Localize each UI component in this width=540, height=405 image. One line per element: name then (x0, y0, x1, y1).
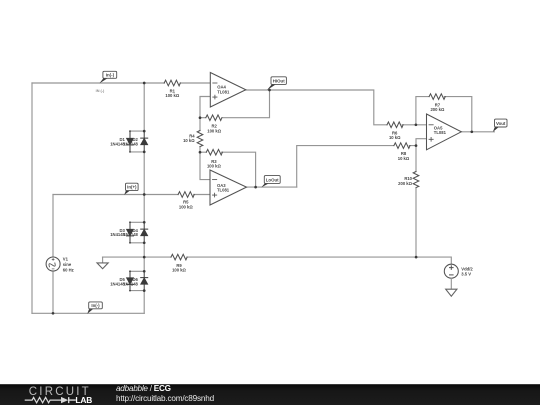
diode D4 (141, 222, 148, 243)
diode D5 (127, 271, 134, 290)
junction: bus / D3-D4 top (143, 221, 146, 224)
wire R8 junction to OA5 + input (409, 139, 426, 146)
footer CircuitLab logo (25, 386, 93, 405)
svg-text:http://circuitlab.com/c89snhd: http://circuitlab.com/c89snhd (116, 394, 215, 403)
wire HiOut to R6 (270, 90, 388, 125)
junction: bus / D1-D2 bottom (143, 151, 146, 154)
svg-text:LoOut: LoOut (266, 177, 279, 182)
diode pair D3/D4 branch wires (130, 222, 144, 243)
ground (left) (97, 257, 108, 269)
wire R6 to OA5 - input (402, 124, 426, 126)
wire bottom rail (32, 312, 144, 314)
wire R10 leads (415, 146, 417, 258)
wire ground rail / R9 net (103, 257, 452, 264)
flag In(+) (124, 183, 138, 195)
svg-text:100 kΩ: 100 kΩ (172, 268, 186, 273)
svg-text:3.5 V: 3.5 V (461, 272, 471, 277)
op-amp OA5 (427, 114, 462, 150)
op-amp OA4 (210, 73, 246, 108)
wire OA3 - riser (200, 152, 210, 179)
diode pair D1/D2 branch wires (130, 131, 144, 152)
junction: bus / D5-D6 bottom (143, 289, 146, 292)
svg-text:10 kΩ: 10 kΩ (389, 135, 401, 140)
junction: bus / D5-D6 top (143, 270, 146, 273)
svg-text:1N4148: 1N4148 (123, 141, 138, 146)
svg-text:TL081: TL081 (434, 130, 447, 135)
wire R2 feedback (200, 90, 270, 118)
svg-text:200 kΩ: 200 kΩ (398, 181, 412, 186)
junction: D3-D4 left bottom corner (129, 242, 131, 244)
junction: bus / D1-D2 top (143, 130, 146, 133)
svg-text:In(-): In(-) (106, 73, 115, 78)
resistor R5 (178, 192, 194, 198)
junction: OA5- / R6 / R7 node (415, 123, 418, 126)
diode D1 (127, 131, 134, 152)
source Vdd/2 (444, 264, 458, 278)
flag In(-) bottom (87, 302, 102, 314)
wire In(+) rail (53, 194, 210, 196)
svg-text:TL081: TL081 (217, 89, 230, 94)
wire R3 feedback (200, 152, 256, 187)
flag Vout (493, 119, 507, 132)
wire In(-) top rail (32, 82, 210, 84)
svg-text:100 kΩ: 100 kΩ (207, 164, 221, 169)
wire OA4 output (246, 89, 270, 91)
source V1 sine (46, 257, 60, 271)
flag LoOut (261, 176, 280, 188)
footer bar (0, 384, 540, 405)
wire R4 link top (199, 118, 201, 153)
junction: HiOut node (268, 89, 271, 92)
svg-text:IN (-): IN (-) (96, 89, 105, 93)
svg-text:1N4148: 1N4148 (123, 232, 138, 237)
junction: Vout / R7 node (470, 130, 473, 133)
resistor R10 vertical (413, 172, 419, 188)
resistor R6 (387, 122, 403, 128)
junction: V1 / bottom rail (52, 312, 55, 315)
svg-text:TL081: TL081 (217, 188, 230, 193)
junction: OA5+ / R8 / R10 node (415, 144, 418, 147)
svg-text:100 kΩ: 100 kΩ (179, 204, 193, 209)
ground (under Vdd/2) (446, 278, 457, 296)
svg-text:HiOut: HiOut (273, 78, 285, 83)
svg-text:1N4148: 1N4148 (123, 281, 138, 286)
svg-text:LAB: LAB (75, 395, 92, 405)
svg-text:In(+): In(+) (127, 185, 137, 190)
junction: R2/R4/OA4+ node (199, 116, 202, 119)
resistor R7 (429, 94, 445, 100)
flag HiOut (267, 77, 287, 91)
svg-text:Vout: Vout (496, 121, 506, 126)
svg-text:200 kΩ: 200 kΩ (430, 107, 444, 112)
wire OA3 output (247, 186, 297, 188)
svg-text:100 kΩ: 100 kΩ (207, 128, 221, 133)
diode D3 (127, 222, 134, 243)
wire R7 feedback net (416, 97, 472, 132)
wire OA4 + riser (200, 97, 210, 118)
junction: R4/R3/OA3- node (199, 151, 202, 154)
diode D2 (141, 131, 148, 152)
junction: D1-D2 left bottom corner (129, 151, 131, 153)
junction: D3-D4 left top corner (129, 221, 131, 223)
junction: LoOut node (254, 186, 257, 189)
junction: In(+) rail / bus (143, 193, 146, 196)
wire LoOut to R8 (297, 146, 394, 188)
diode pair D5/D6 branch wires (130, 271, 144, 290)
wire center bus (143, 83, 145, 313)
op-amp OA3 (210, 170, 247, 205)
svg-text:V1: V1 (63, 257, 69, 262)
diode D6 (141, 271, 148, 290)
svg-text:100 kΩ: 100 kΩ (165, 93, 179, 98)
junction: ground rail / bus (143, 256, 146, 259)
junction: D5-D6 left top corner (129, 270, 131, 272)
wire V1 top lead (52, 195, 54, 257)
svg-text:sine: sine (63, 262, 72, 267)
junction: R10 / ground rail (415, 256, 418, 259)
resistor R4 vertical (197, 131, 203, 147)
wire left outer vertical (31, 83, 33, 313)
resistor R8 (394, 143, 410, 149)
svg-text:10 kΩ: 10 kΩ (398, 156, 410, 161)
resistor R1 (164, 80, 180, 86)
flag In(-) top (99, 71, 116, 83)
svg-text:In(-): In(-) (91, 303, 100, 308)
wire OA5 output to Vout (461, 131, 494, 133)
resistor R2 (206, 115, 222, 121)
resistor R9 (171, 254, 187, 260)
junction: D1-D2 left top corner (129, 130, 131, 132)
schematic text labels (63, 73, 506, 308)
resistor R3 (206, 149, 222, 155)
svg-text:adbabble / ECG: adbabble / ECG (116, 384, 171, 393)
svg-text:60 Hz: 60 Hz (63, 267, 74, 272)
junction: D5-D6 left bottom corner (129, 290, 131, 292)
svg-text:10 kΩ: 10 kΩ (183, 138, 195, 143)
junction: top rail / bus (143, 82, 146, 85)
footer title and url (116, 384, 215, 403)
junction: bus / D3-D4 bottom (143, 241, 146, 244)
wire V1 bottom lead (52, 271, 54, 314)
